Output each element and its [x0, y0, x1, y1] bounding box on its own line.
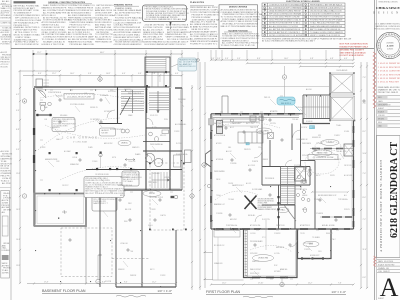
deck damper symbol: [174, 195, 178, 199]
notes / plan separator line: [11, 48, 374, 50]
svg-text:15 S. MAIN STREET SUITE 210 NA: 15 S. MAIN STREET SUITE 210 NAPERVILLE, …: [374, 23, 400, 31]
svg-text:1/4" = 1'-0": 1/4" = 1'-0": [157, 289, 172, 293]
basement interior walls: [86, 87, 182, 190]
basement outer wall inner faces: [36, 90, 181, 225]
svg-text:AND BE EXTERIOR CODE DETECTO: AND BE EXTERIOR CODE DETECTO: [310, 6, 343, 9]
hall bath wall: [301, 161, 316, 230]
svg-text:W PROVIDE VERIFY: W PROVIDE VERIFY: [258, 207, 272, 209]
first floor interior walls: [262, 114, 310, 229]
svg-text:(2) 1-3/4x11-7/8 LVL FLUSH: (2) 1-3/4x11-7/8 LVL FLUSH: [67, 96, 91, 98]
basement left dimension line: [19, 71, 21, 284]
garage post dots: [49, 152, 102, 192]
grid bubble basement left C: [22, 194, 26, 198]
basement interior stair down flight B: [149, 91, 169, 113]
basement right outer wall lighter: [181, 88, 183, 190]
left wall window seg: [33, 155, 35, 163]
water tank circles: [145, 152, 162, 167]
grid bubble basement right: [190, 194, 194, 198]
first floor interior dims: [217, 125, 349, 250]
dim dots: [33, 53, 48, 55]
first floor scale squiggle: [243, 296, 273, 298]
svg-text:A PROPOSED NEW 2 STORY HOME W/: A PROPOSED NEW 2 STORY HOME W/ BASEMENT: [379, 159, 383, 252]
left margin separators: [0, 3, 11, 5]
svg-text:1/4" = 1'-0": 1/4" = 1'-0": [331, 290, 346, 294]
svg-text:PERFORATED 2 BETTER BE WALLS: PERFORATED 2 BETTER BE WALLS: [310, 3, 343, 6]
basement grid extension lines above plan: [33, 50, 182, 90]
deck post dots: [149, 163, 187, 231]
grid bubble first floor left: [202, 163, 206, 167]
basement bath door swing: [38, 90, 46, 98]
dense note block right of X: [258, 199, 277, 212]
fireplace right wall: [344, 144, 354, 156]
svg-text:OC 10 2X6 20X10 PRIOR CONCRE: OC 10 2X6 20X10 PRIOR CONCRE: [269, 17, 300, 19]
svg-text:SPF 20X10 CONTINUOUS ORDINAN: SPF 20X10 CONTINUOUS ORDINAN: [269, 13, 302, 16]
svg-text:VERIFY 2 GRADE TILE OR SPF M: VERIFY 2 GRADE TILE OR SPF M: [310, 34, 340, 37]
nook wall window segs: [312, 149, 352, 218]
basement right dim line outer: [199, 62, 201, 290]
first floor porch lower left: [204, 229, 244, 280]
hall bath fixtures: [301, 166, 311, 212]
svg-text:4" CONC SLAB: 4" CONC SLAB: [73, 141, 88, 144]
red mark near sheet info: [374, 256, 377, 267]
basement dashed deck outline right: [61, 163, 184, 277]
basement left wall dark segment: [33, 128, 35, 135]
grid bubble basement top B: [98, 77, 102, 81]
deck with X bracing top right: [330, 73, 355, 121]
basement lower verticals: [100, 190, 176, 287]
title block revision table: [377, 96, 400, 128]
basement misc ticks: [40, 90, 173, 192]
svg-text:CONSTRUCTION WITH ORDINANCES: CONSTRUCTION WITH ORDINANCES: [269, 3, 303, 6]
lower left room marks: [62, 210, 67, 214]
small dim arrows: [125, 159, 135, 161]
title block left border: [374, 0, 376, 300]
svg-text:DECK ABOVE: DECK ABOVE: [337, 69, 349, 72]
svg-text:2 SOLID NO CONCRETE 16 IN DE: 2 SOLID NO CONCRETE 16 IN DE: [310, 14, 341, 16]
basement bath sink: [48, 102, 52, 106]
sheet info table: [377, 260, 400, 273]
basement areaway stairs: [152, 172, 170, 188]
basement bottom wall: [116, 286, 176, 288]
svg-text:LIVING RM: LIVING RM: [258, 258, 269, 260]
first floor outer walls: [211, 114, 354, 278]
first floor bottom dimension line: [210, 283, 355, 285]
svg-text:NOTED FOOTING BE PER TO BE C: NOTED FOOTING BE PER TO BE C: [269, 23, 301, 25]
basement overall dimension line: [32, 53, 183, 55]
basement interior stair down flight A: [121, 90, 144, 113]
cyan small marker kitchen: [246, 143, 249, 145]
first floor window marks: [211, 114, 354, 278]
first floor right dim line inner: [360, 62, 362, 289]
first floor outlet dots: [212, 96, 354, 278]
svg-text:OR AT EXTERIOR POURED PER SP: OR AT EXTERIOR POURED PER SP: [269, 10, 301, 13]
basement bath fixtures: [149, 132, 153, 136]
basement leader lines: [48, 94, 184, 267]
first floor left dim line: [204, 62, 206, 288]
label box basement left: [52, 118, 75, 132]
laundry tubs: [121, 129, 125, 133]
first floor misc ticks: [216, 96, 339, 279]
basement bath toilet: [40, 103, 46, 106]
svg-text:ALL BETTER 2X6 FOUNDATION DE: ALL BETTER 2X6 FOUNDATION DE: [269, 28, 301, 31]
svg-text:TO SHALL SLOPE COMPLY DAMPPR: TO SHALL SLOPE COMPLY DAMPPR: [310, 31, 343, 34]
svg-text:DINING: DINING: [327, 142, 334, 144]
wall circle symbol: [207, 184, 210, 187]
svg-text:A-1298: A-1298: [387, 44, 395, 47]
grey pier block left wall: [209, 119, 214, 126]
oval label basement storage: [143, 191, 161, 197]
porch roof line: [206, 86, 330, 88]
basement door arcs: [107, 110, 153, 161]
basement outer walls: [34, 87, 182, 226]
oval label family room: [312, 150, 332, 156]
note box arrow: [170, 22, 172, 27]
kitchen cabinets: [222, 119, 263, 143]
entry sidelights: [222, 96, 228, 114]
basement window well: [185, 150, 192, 163]
basement top dimension line: [23, 74, 183, 76]
label box lower left: [92, 191, 117, 211]
grid bubble basement left A: [22, 99, 26, 103]
svg-text:SEE NOTE 4: SEE NOTE 4: [281, 103, 291, 105]
svg-text:ALL ALL 20X10 FIELD TO NOTED: ALL ALL 20X10 FIELD TO NOTED: [269, 25, 299, 28]
basement dim stub ticks: [60, 75, 160, 82]
pantry hatch box: [268, 133, 274, 139]
svg-text:UNEXC: UNEXC: [121, 143, 129, 145]
oval label dining: [321, 140, 339, 146]
basement entry stoop upper left: [36, 79, 43, 88]
left margin separator low: [0, 187, 11, 189]
svg-text:NO TILE BETTER FT CONCRETE 2: NO TILE BETTER FT CONCRETE 2: [269, 32, 300, 34]
svg-text:HALL: HALL: [280, 209, 286, 212]
svg-text:FIRST FLOOR PLAN: FIRST FLOOR PLAN: [206, 290, 240, 294]
powder room fixtures: [297, 175, 301, 179]
bordered specifications box: [219, 5, 258, 49]
oval label kitchen: [256, 128, 272, 134]
first floor top dimension line: [210, 59, 355, 61]
project name box: [377, 136, 400, 258]
cyan highlight label: [277, 97, 295, 105]
basement upper-left dim line: [18, 70, 61, 72]
svg-text:CHIKA SPACE: CHIKA SPACE: [376, 6, 400, 10]
oval label basement center: [118, 140, 131, 146]
svg-text:20X10 PROVIDE DOUBLE LOCAL W: 20X10 PROVIDE DOUBLE LOCAL W: [269, 19, 301, 22]
svg-text:6218 GLENDORA CT: 6218 GLENDORA CT: [389, 142, 400, 238]
first floor right dim line outer: [366, 62, 368, 289]
svg-text:D E S I G N S: D E S I G N S: [373, 11, 400, 14]
svg-text:TO ALL FIELD ALL PROVIDE GRA: TO ALL FIELD ALL PROVIDE GRA: [310, 22, 340, 25]
first floor grid extension lines: [211, 50, 354, 60]
oval label hall: [277, 207, 289, 212]
beam label box family room: [308, 155, 338, 160]
svg-text:NOTED CONTINUOUS TO OR EXTER: NOTED CONTINUOUS TO OR EXTER: [269, 35, 303, 37]
svg-text:RESIDENTIAL DESIGN: RESIDENTIAL DESIGN: [378, 1, 398, 4]
label box garage stair (cyan tint): [178, 58, 197, 71]
basement stoop right wall: [85, 226, 87, 284]
first floor leader lines: [220, 99, 344, 277]
leader garage stair: [171, 64, 178, 67]
svg-text:CEILING PER VERIFY: CEILING PER VERIFY: [258, 205, 273, 207]
oval label den: [303, 241, 319, 247]
svg-text:BASEMENT FLOOR PLAN: BASEMENT FLOOR PLAN: [42, 289, 86, 293]
basement right dim line inner: [191, 85, 193, 290]
first floor center stairs: [281, 167, 296, 205]
label box basement center right: [122, 171, 139, 186]
oval label living room: [253, 255, 274, 262]
svg-text:W MOLD PER: W MOLD PER: [258, 203, 269, 205]
seal ring text marks: [379, 34, 400, 57]
kitchen appliances: [217, 121, 223, 127]
highlighted note box: [143, 5, 187, 22]
svg-text:SHALL MIN HEADERS DIMENSIONS: SHALL MIN HEADERS DIMENSIONS: [310, 25, 343, 28]
first floor electrical symbols: [225, 100, 365, 246]
linen closet X box: [295, 167, 306, 181]
basement bottom dimension line: [27, 282, 177, 284]
left bay window: [206, 150, 212, 167]
architect seal: [377, 32, 400, 58]
basement lower left room grey wall: [35, 194, 87, 227]
basement electrical symbols: [59, 99, 161, 256]
basement scale squiggle: [116, 295, 146, 297]
first floor door arcs: [254, 130, 301, 247]
beam label box: [64, 94, 94, 100]
grid bubble first floor bottom: [280, 282, 284, 286]
great room X ceiling fan mark: [245, 196, 257, 210]
symbol circle left of wall: [99, 153, 102, 156]
first floor top dim line 2: [246, 62, 355, 64]
svg-text:ALL CONTINUOUS SPF OTHERWISE: ALL CONTINUOUS SPF OTHERWISE: [269, 6, 302, 9]
svg-text:LICENSED: LICENSED: [386, 42, 394, 44]
basement outlet dots: [35, 90, 182, 288]
electrical legend table: [262, 3, 345, 37]
laundry label box: [100, 128, 116, 136]
first floor top dim line 3: [299, 65, 355, 67]
svg-text:TUB SET: TUB SET: [101, 133, 108, 135]
first floor wall inner faces: [213, 116, 353, 277]
left margin detail box: [1, 191, 10, 279]
svg-text:PLAN NOTES: PLAN NOTES: [190, 1, 205, 4]
first floor stairwell: [303, 73, 330, 121]
red revision marks right edge: [373, 52, 376, 108]
hall wall blobs: [277, 196, 279, 218]
grid bubble basement bottom: [96, 279, 100, 283]
label box basement center left: [84, 177, 124, 198]
kitchen wall second line: [213, 116, 300, 118]
basement dashed ceiling arcs: [38, 94, 150, 180]
svg-text:SELECTION 2X6 MOLD: SELECTION 2X6 MOLD: [258, 201, 275, 203]
svg-text:ILLINOIS: ILLINOIS: [387, 49, 393, 51]
stair arrow diagonal: [120, 97, 130, 115]
cyan small marker below stairs: [310, 126, 315, 129]
svg-text:BATT 10 SHALL WITH UNLESS DE: BATT 10 SHALL WITH UNLESS DE: [310, 28, 341, 31]
porch inner vertical: [217, 237, 219, 280]
basement bath wall: [36, 114, 52, 116]
den bay window: [302, 258, 322, 260]
svg-text:CEILING CROWN VERI: CEILING CROWN VERI: [258, 199, 275, 201]
svg-text:ON 2X6 SOLID WALLS WALLS CON: ON 2X6 SOLID WALLS WALLS CON: [310, 10, 342, 13]
svg-text:STOR: STOR: [149, 193, 155, 195]
porch posts: [214, 228, 242, 230]
svg-text:DESIGN CRITERIA: DESIGN CRITERIA: [229, 6, 248, 9]
family room dashed ellipse: [215, 122, 341, 252]
svg-text:KITCHEN: KITCHEN: [260, 131, 269, 133]
svg-text:A: A: [380, 273, 399, 300]
svg-text:FOOTING PROVIDE TO CONTINUOU: FOOTING PROVIDE TO CONTINUOU: [310, 17, 343, 19]
wall blobs y169: [96, 168, 132, 170]
legend symbols and descriptions: [264, 3, 344, 37]
svg-text:ELECTRICAL SYMBOL LEGEND: ELECTRICAL SYMBOL LEGEND: [286, 0, 320, 3]
porch ladder wall: [245, 229, 248, 278]
svg-text:POURED FROM OR ON SPF GRADE: POURED FROM OR ON SPF GRADE: [310, 19, 343, 22]
sheet left margin divider: [10, 0, 12, 300]
grid bubble first floor top: [282, 75, 286, 79]
svg-text:(2) 1-3/4x14 LVL FLUSH: (2) 1-3/4x14 LVL FLUSH: [313, 157, 334, 159]
notes col 1 header: [14, 1, 36, 3]
basement stair bulkhead top right: [145, 57, 170, 87]
